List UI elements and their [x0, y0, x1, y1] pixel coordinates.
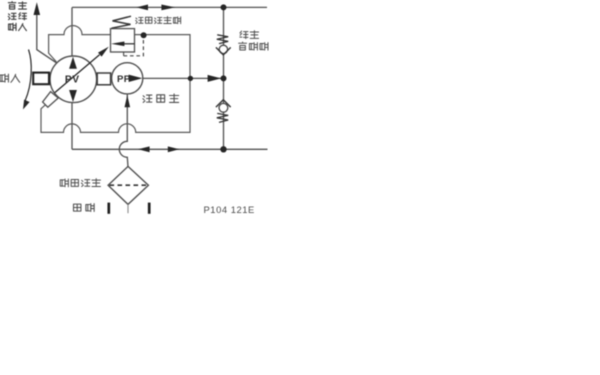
wire charge pump outlet line: [143, 77, 224, 79]
arrow PV displacement diagonal: [55, 55, 100, 93]
wire stub diamond to tank: [127, 204, 129, 213]
svg-text:P104 121E: P104 121E: [204, 204, 255, 215]
relief valve spring: [112, 16, 132, 28]
check valve CV1 seat: [216, 47, 231, 55]
label oil tank: [73, 204, 80, 211]
node charge rail junction: [221, 75, 227, 81]
check valve CV1 ball: [219, 45, 227, 53]
check valve CV1 spring: [217, 35, 228, 44]
node bottom rail junction: [220, 146, 226, 152]
drain port tilted box: [43, 92, 59, 108]
arrow input rotation arc: [25, 50, 31, 101]
filter suction strainer diamond: [108, 166, 148, 204]
charge relief valve box: [111, 29, 135, 52]
wire PV bottom port line: [71, 102, 73, 149]
enclosure lower-left diagonal: [41, 94, 57, 108]
pump PP charge pump: [112, 63, 143, 94]
node enclosure edge junction: [188, 76, 193, 81]
wire suction line with hop over bottom line: [119, 94, 128, 166]
tank bars: [107, 203, 110, 214]
check valve CV2 seat: [216, 100, 231, 107]
node pilot tap junction: [141, 32, 147, 38]
relief valve internal arrow: [124, 43, 135, 45]
node top rail junction: [221, 4, 227, 10]
label charge relief valve: [136, 17, 143, 23]
arrows top line bidirectional: [136, 5, 148, 11]
enclosure pump assembly boundary top-left: [49, 26, 111, 62]
check valve CV2 ball: [219, 103, 228, 112]
input shaft box: [33, 73, 49, 85]
wire PV top port line: [71, 7, 73, 56]
label suction filter: [60, 179, 68, 187]
label input: [0, 74, 8, 82]
PV port triangles: [69, 57, 77, 69]
check valve CV2 spring: [217, 113, 228, 122]
wire case drain line: [37, 14, 57, 63]
label case drain line (3 rows x 2 chars): [8, 2, 15, 9]
label charge pump: [143, 95, 152, 102]
wire bottom work line B: [72, 148, 268, 150]
relief valve pilot line dashed: [123, 52, 125, 56]
coupling box between PV and PP: [97, 73, 110, 85]
wire top work line A: [72, 6, 267, 8]
PP flow triangle: [129, 75, 143, 82]
wire right charge check-valve rail: [223, 7, 225, 149]
arrow case drain up: [34, 2, 41, 15]
arrow suction into PP: [125, 95, 131, 107]
pump PV variable displacement: [50, 56, 97, 103]
label system check valve: [240, 31, 248, 39]
enclosure right and bottom with hops: [41, 35, 190, 133]
arrows bottom line bidirectional: [138, 146, 150, 152]
arrow charge line into rail: [208, 75, 222, 82]
svg-text:PP: PP: [117, 74, 131, 85]
svg-text:PV: PV: [65, 75, 80, 86]
